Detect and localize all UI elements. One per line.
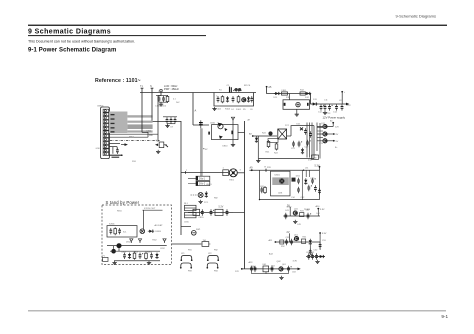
svg-text:R805: R805 xyxy=(147,251,153,253)
svg-text:C803: C803 xyxy=(121,251,127,253)
output caps xyxy=(320,104,325,110)
svg-text:A11: A11 xyxy=(269,239,274,242)
svg-text:R24: R24 xyxy=(262,133,267,135)
svg-text:12V: 12V xyxy=(235,271,239,273)
caps xyxy=(201,209,204,215)
svg-text:S tand by Power: S tand by Power xyxy=(106,200,140,205)
ground under coupler xyxy=(198,200,202,204)
ground xyxy=(256,159,260,163)
svg-text:5V: 5V xyxy=(287,204,290,207)
Y-cap terminal above xyxy=(231,117,234,121)
transformer body xyxy=(223,169,245,182)
svg-text:C41: C41 xyxy=(285,210,290,212)
svg-text:GND: GND xyxy=(96,148,101,150)
ground dot xyxy=(259,199,260,200)
svg-text:CN801: CN801 xyxy=(97,106,104,108)
svg-text:5Va-1: 5Va-1 xyxy=(199,179,206,181)
svg-text:D13: D13 xyxy=(313,99,318,101)
diode series xyxy=(274,92,280,95)
tick E xyxy=(265,167,267,172)
connector body xyxy=(101,107,110,159)
pin bar right xyxy=(231,131,233,135)
svg-text:A5: A5 xyxy=(268,86,272,89)
tiny part labels xyxy=(97,90,338,268)
wire through box xyxy=(232,121,234,143)
wire lower pins xyxy=(109,144,120,147)
svg-text:R82: R82 xyxy=(214,198,219,200)
dash-dot control line xyxy=(110,139,160,141)
wire pin drops from rail xyxy=(142,93,161,133)
svg-text:9-1: 9-1 xyxy=(441,314,448,319)
diode beside coupler xyxy=(205,191,208,197)
svg-text:7: 7 xyxy=(186,170,188,172)
svg-text:A: A xyxy=(195,109,197,113)
capacitor below connector xyxy=(116,148,119,154)
transistor xyxy=(293,211,297,215)
svg-text:t: t xyxy=(344,91,345,94)
svg-text:L31: L31 xyxy=(305,167,309,169)
line filter choke xyxy=(230,87,242,93)
svg-text:This Document can not be used: This Document can not be used without Sa… xyxy=(28,40,135,44)
cap right xyxy=(226,209,229,215)
thyristor mark xyxy=(219,136,223,140)
wire verticals xyxy=(307,123,317,158)
svg-text:12V: 12V xyxy=(335,127,339,129)
right vertical xyxy=(319,234,321,250)
svg-text:Q61: Q61 xyxy=(282,264,287,266)
boxes xyxy=(280,240,284,244)
svg-text:PC1: PC1 xyxy=(204,202,209,204)
res box xyxy=(300,213,304,217)
svg-text:C11: C11 xyxy=(324,100,328,102)
terminal xyxy=(249,132,254,137)
ground xyxy=(279,276,283,280)
transistor xyxy=(279,267,283,271)
svg-text:3.3V: 3.3V xyxy=(293,260,298,262)
right cap xyxy=(318,188,321,194)
footer rule xyxy=(28,309,446,312)
svg-text:RL1: RL1 xyxy=(184,203,189,205)
diode in box xyxy=(225,128,228,131)
wire to main vertical xyxy=(233,212,245,214)
ground right xyxy=(147,261,151,265)
standby lower wire xyxy=(110,250,160,252)
svg-text:B+: B+ xyxy=(335,147,338,149)
chassis ground bars xyxy=(109,155,121,157)
left terminal xyxy=(269,239,277,243)
IC body gray xyxy=(272,177,289,185)
svg-text:D810: D810 xyxy=(223,146,229,148)
svg-text:Reference : 1101~: Reference : 1101~ xyxy=(95,78,141,84)
svg-text:R52: R52 xyxy=(281,246,286,248)
svg-text:A7: A7 xyxy=(248,119,251,122)
switch transistor Q801 xyxy=(155,140,168,148)
svg-text:3.3V: 3.3V xyxy=(322,233,327,235)
standby output parts row xyxy=(123,253,126,259)
out arrow xyxy=(298,268,301,271)
svg-text:Q41: Q41 xyxy=(294,209,299,211)
wire xyxy=(254,135,277,137)
right vertical 2 xyxy=(319,123,321,159)
svg-text:R21: R21 xyxy=(266,152,271,154)
transistor arrow blob xyxy=(125,143,128,146)
transistor xyxy=(268,131,272,135)
svg-text:R1: R1 xyxy=(219,90,222,92)
junction drop xyxy=(288,94,290,100)
svg-text:D32: D32 xyxy=(311,178,316,180)
relay box 1 xyxy=(185,205,197,210)
standby transformer windings xyxy=(117,243,122,248)
left vertical xyxy=(259,170,261,199)
svg-text:C6: C6 xyxy=(250,109,253,111)
wire xyxy=(306,256,325,258)
svg-text:R88: R88 xyxy=(149,135,154,137)
svg-text:T1: T1 xyxy=(140,85,143,88)
wire ladder bottom rail xyxy=(214,93,254,107)
diode xyxy=(226,96,229,102)
diode 2 xyxy=(305,92,311,95)
svg-text:D11: D11 xyxy=(274,97,279,99)
bottom rail xyxy=(252,273,289,275)
svg-text:C102: C102 xyxy=(216,109,222,111)
caps xyxy=(250,266,255,272)
junction dot xyxy=(303,170,304,171)
svg-text:T802: T802 xyxy=(152,240,157,242)
pin bar left xyxy=(208,132,210,135)
capacitor xyxy=(232,96,235,102)
box right xyxy=(302,239,306,243)
5.3V terminal xyxy=(315,165,321,171)
wire label stub xyxy=(188,178,196,183)
svg-text:D31: D31 xyxy=(296,175,301,177)
svg-text:ST-5V OUT: ST-5V OUT xyxy=(144,208,156,210)
scan micro labels xyxy=(117,90,351,274)
wire row xyxy=(275,241,320,243)
capacitor xyxy=(217,96,220,102)
svg-text:C34: C34 xyxy=(291,197,296,199)
caps xyxy=(307,253,312,259)
ground under ladder xyxy=(212,107,216,111)
left terminal xyxy=(235,268,243,273)
top wire xyxy=(291,126,314,136)
svg-text:FB2: FB2 xyxy=(214,250,219,252)
ground xyxy=(315,260,319,264)
wire xyxy=(267,88,346,104)
bottom box xyxy=(312,155,319,159)
wire rail drop at x193 xyxy=(192,93,194,126)
svg-text:F801: F801 xyxy=(282,90,288,92)
svg-text:C32: C32 xyxy=(301,197,306,199)
photocoupler in standby xyxy=(140,229,145,234)
svg-text:Q13: Q13 xyxy=(319,143,324,145)
terminal NC xyxy=(150,85,153,92)
standby ground rail xyxy=(114,260,160,262)
driver Q3 xyxy=(323,139,339,143)
harness ribbon wires xyxy=(127,115,152,117)
wire connector mid lines xyxy=(109,132,158,137)
svg-text:3: 3 xyxy=(240,170,242,172)
wire xyxy=(244,121,246,269)
svg-text:C21: C21 xyxy=(291,148,296,150)
transistor xyxy=(294,236,298,240)
resistors vertical xyxy=(267,140,270,148)
svg-text:C4: C4 xyxy=(231,109,234,111)
wire standby rail xyxy=(107,245,167,247)
ground left xyxy=(112,261,116,265)
svg-text:R811: R811 xyxy=(117,211,123,213)
link stubs to drivers xyxy=(317,127,323,137)
right edge vertical xyxy=(319,170,321,199)
terminal A5 xyxy=(266,86,272,89)
svg-text:A8: A8 xyxy=(249,132,252,135)
svg-text:IC801: IC801 xyxy=(109,223,115,225)
svg-text:5.3V: 5.3V xyxy=(219,207,224,209)
svg-text:FB1: FB1 xyxy=(188,250,193,252)
svg-text:C53: C53 xyxy=(322,240,327,242)
controller IC box xyxy=(271,171,291,196)
svg-text:A10: A10 xyxy=(316,205,321,208)
right cap xyxy=(319,242,322,248)
ground under Q xyxy=(156,150,160,154)
standby controller box xyxy=(107,226,137,237)
svg-text:GND1: GND1 xyxy=(206,184,212,186)
svg-text:ZD1: ZD1 xyxy=(255,142,260,144)
svg-text:R104: R104 xyxy=(225,109,231,111)
transistor Q xyxy=(242,98,246,102)
svg-text:SW1: SW1 xyxy=(196,229,201,231)
relay box 2 xyxy=(185,212,197,217)
right terminal xyxy=(319,232,327,235)
svg-text:2V: 2V xyxy=(287,231,290,234)
svg-text:R2 C4: R2 C4 xyxy=(244,85,251,87)
diode with drop xyxy=(309,239,312,252)
top rail xyxy=(249,169,319,171)
net wire with label xyxy=(143,208,163,229)
ground from regulator xyxy=(296,109,298,112)
bottom cap xyxy=(309,249,312,255)
svg-text:D101: D101 xyxy=(236,109,242,111)
wire main top rail xyxy=(140,92,256,94)
resistor 2 xyxy=(300,92,305,95)
connector harness block xyxy=(109,112,127,134)
net label boxes xyxy=(196,176,210,180)
svg-text:PDP : 45kHz: PDP : 45kHz xyxy=(164,87,180,91)
svg-text:D812: D812 xyxy=(126,242,132,244)
driver Q1 xyxy=(323,122,340,129)
thermistor xyxy=(201,240,210,247)
svg-text:T801: T801 xyxy=(229,180,235,182)
svg-text:C812: C812 xyxy=(160,248,166,250)
svg-text:C43: C43 xyxy=(297,224,302,226)
wire main row xyxy=(242,268,298,270)
svg-text:R33: R33 xyxy=(267,167,272,169)
wire row xyxy=(188,212,233,214)
wire box to main vertical xyxy=(238,132,245,134)
wire xyxy=(181,226,191,228)
svg-text:C14: C14 xyxy=(333,112,338,114)
vertical drops below connector xyxy=(113,147,117,154)
wire stubs to drivers xyxy=(317,127,323,141)
fuse box xyxy=(103,255,108,261)
small parts xyxy=(304,128,307,134)
rectifier dark xyxy=(292,178,296,182)
svg-text:R12: R12 xyxy=(300,90,305,92)
ground under caps xyxy=(323,111,327,115)
svg-text:9 Schematic Diagrams: 9 Schematic Diagrams xyxy=(28,29,111,36)
mid caps xyxy=(292,141,295,147)
svg-text:C63: C63 xyxy=(292,272,297,274)
svg-text:AC-DET: AC-DET xyxy=(155,224,164,227)
svg-text:D12: D12 xyxy=(305,97,310,99)
out box xyxy=(215,209,223,215)
svg-text:C12: C12 xyxy=(318,112,323,114)
driver Q2 xyxy=(323,132,339,136)
svg-text:JP2: JP2 xyxy=(208,253,212,255)
ground below box xyxy=(231,143,235,147)
svg-text:1: 1 xyxy=(223,168,225,170)
wire row xyxy=(283,215,320,217)
svg-text:A12: A12 xyxy=(269,252,274,255)
snubber box xyxy=(212,125,239,140)
relay cross box xyxy=(278,129,287,139)
svg-text:U801: U801 xyxy=(275,175,281,177)
startup transistor xyxy=(218,123,224,129)
svg-text:2kV: 2kV xyxy=(176,102,180,104)
svg-text:R801: R801 xyxy=(129,137,135,139)
cap xyxy=(287,266,292,272)
svg-text:C101 C102: C101 C102 xyxy=(155,106,167,108)
wire bus vertical x181 xyxy=(180,121,182,235)
Y terminals xyxy=(130,239,133,243)
svg-text:9-Schematic Diagrams: 9-Schematic Diagrams xyxy=(396,14,436,19)
output arrow xyxy=(346,103,349,106)
crossing diode xyxy=(300,128,303,131)
header top rule xyxy=(28,25,447,26)
svg-text:C44: C44 xyxy=(316,213,321,215)
svg-text:FB4: FB4 xyxy=(214,271,219,273)
standby dashed box xyxy=(102,205,172,265)
svg-text:12V Power supply: 12V Power supply xyxy=(323,115,346,119)
svg-text:C52: C52 xyxy=(314,250,319,252)
ground xyxy=(293,220,297,224)
svg-text:U2S: U2S xyxy=(278,192,283,194)
svg-text:D21: D21 xyxy=(297,123,302,125)
bottom rail xyxy=(260,199,320,201)
connector pins xyxy=(103,109,109,155)
svg-text:N: N xyxy=(150,85,152,88)
resistor xyxy=(237,95,240,103)
diode xyxy=(318,255,324,258)
top terminal xyxy=(341,91,345,104)
motor cap circle xyxy=(192,231,197,236)
svg-text:D15: D15 xyxy=(308,160,313,162)
5.3V block verticals xyxy=(302,170,309,199)
wire standby to filter xyxy=(172,243,202,245)
svg-text:0.1: 0.1 xyxy=(173,99,177,101)
svg-text:C9: C9 xyxy=(170,127,174,129)
svg-text:A13: A13 xyxy=(249,261,254,264)
diode xyxy=(247,96,250,102)
caps left xyxy=(284,213,287,219)
IC die circle xyxy=(279,178,284,183)
svg-text:5V: 5V xyxy=(336,141,339,143)
right terminal xyxy=(317,208,325,216)
terminal 5V xyxy=(287,204,290,216)
svg-text:R51: R51 xyxy=(303,237,308,239)
svg-text:C810: C810 xyxy=(210,123,216,125)
svg-text:9V: 9V xyxy=(336,134,339,136)
svg-text:Q62: Q62 xyxy=(277,261,282,263)
svg-text:R5: R5 xyxy=(243,109,246,111)
svg-text:Q51: Q51 xyxy=(294,235,299,237)
svg-text:12V: 12V xyxy=(347,105,351,107)
bottom rail xyxy=(258,126,314,159)
terminal ring xyxy=(160,89,163,92)
svg-text:C62: C62 xyxy=(271,265,276,267)
caps column xyxy=(297,178,300,184)
rectifier diode out xyxy=(311,102,317,105)
svg-text:R22: R22 xyxy=(274,153,279,155)
second capacitor cluster xyxy=(163,117,177,129)
photocoupler PC801 xyxy=(191,193,204,198)
svg-text:5Vb-2: 5Vb-2 xyxy=(199,184,206,186)
terminal top xyxy=(287,231,290,242)
resistor xyxy=(221,95,224,103)
fusible resistor xyxy=(282,90,288,95)
svg-text:D804: D804 xyxy=(133,251,139,253)
svg-text:9-1 Power Schematic Diagram: 9-1 Power Schematic Diagram xyxy=(28,48,116,54)
capacitor cluster under terminal xyxy=(155,95,169,108)
svg-text:C820: C820 xyxy=(199,217,205,219)
terminal omega xyxy=(250,167,254,172)
svg-text:C1: C1 xyxy=(227,85,231,87)
svg-text:C815: C815 xyxy=(184,222,190,224)
svg-text:PC2: PC2 xyxy=(285,125,290,127)
svg-text:FB3: FB3 xyxy=(188,271,193,273)
section title underline xyxy=(28,35,206,36)
svg-text:IC1: IC1 xyxy=(123,232,127,234)
svg-text:C61 R62: C61 R62 xyxy=(306,252,315,254)
svg-text:JP1: JP1 xyxy=(181,253,185,255)
svg-text:A9: A9 xyxy=(250,167,254,170)
diode down xyxy=(301,148,304,154)
regulator IC box xyxy=(283,100,310,110)
reg box xyxy=(193,209,200,215)
cap xyxy=(271,266,274,272)
wire xyxy=(157,96,159,142)
capacitor xyxy=(250,96,253,102)
zener xyxy=(255,136,258,142)
svg-text:5V: 5V xyxy=(205,149,208,151)
bracket box xyxy=(268,139,278,143)
svg-text:C22: C22 xyxy=(305,147,310,149)
wire into transformer xyxy=(181,172,228,174)
terminal T1 xyxy=(140,85,143,92)
cap xyxy=(307,213,312,219)
diode right of coupler xyxy=(148,230,154,233)
svg-text:ZD8: ZD8 xyxy=(132,161,137,163)
wire from x193 xyxy=(193,124,209,126)
electrolytic cap C xyxy=(199,120,203,128)
reg box xyxy=(263,266,269,272)
svg-text:D803: D803 xyxy=(156,231,162,233)
left small parts xyxy=(260,187,263,193)
svg-text:3.3V: 3.3V xyxy=(320,209,325,211)
